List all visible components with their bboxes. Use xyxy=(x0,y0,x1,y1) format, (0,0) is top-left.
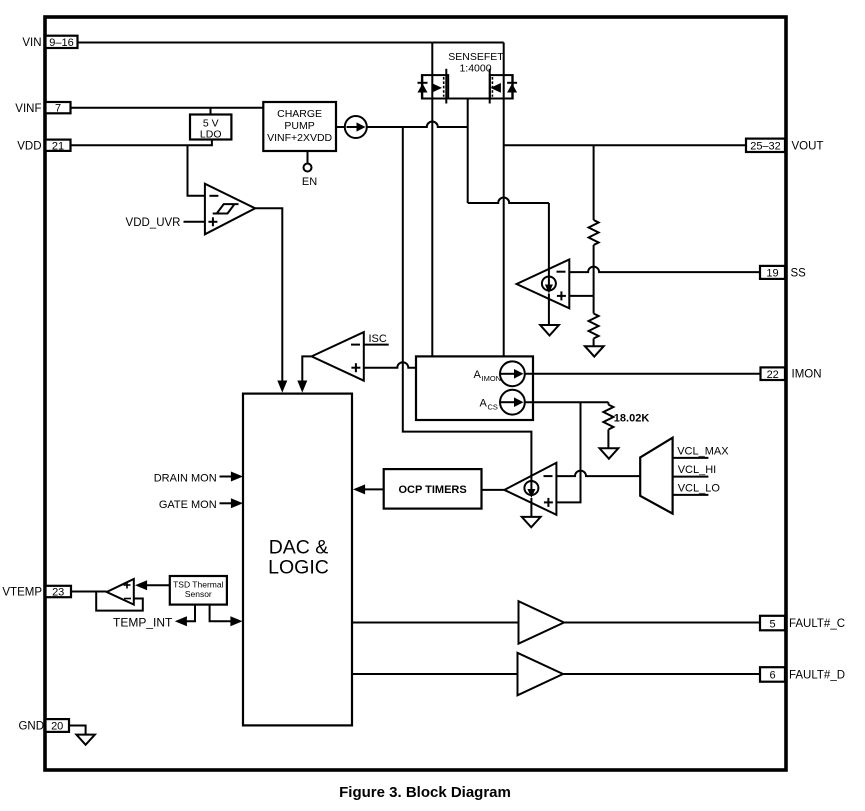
transistor main FET (left) xyxy=(418,69,449,104)
svg-text:A: A xyxy=(474,369,482,381)
svg-text:ISC: ISC xyxy=(369,333,387,345)
ground at GND pin xyxy=(76,735,95,745)
pin VOUT 25-32 xyxy=(504,139,824,153)
svg-text:21: 21 xyxy=(52,140,64,152)
svg-text:1:4000: 1:4000 xyxy=(459,63,491,75)
signal GATE MON xyxy=(159,498,243,511)
block OCP TIMERS xyxy=(384,469,505,509)
svg-text:20: 20 xyxy=(51,721,63,733)
op-amp U5 (VTEMP buffer) xyxy=(71,579,143,611)
svg-text:VINF: VINF xyxy=(15,103,41,115)
resistor R2 (divider bottom) xyxy=(589,296,599,346)
wire OCP comp to ground xyxy=(530,498,532,517)
wire A_CS output xyxy=(525,401,609,403)
svg-text:SENSEFET: SENSEFET xyxy=(448,51,504,63)
buffer U7 FAULT#_D xyxy=(352,653,563,696)
svg-text:OCP TIMERS: OCP TIMERS xyxy=(398,484,466,496)
current source I1 charge pump output xyxy=(336,116,367,138)
wire sense FET source down to A_CS input xyxy=(503,75,505,356)
wire charge pump rail down to OCP current source xyxy=(403,127,532,481)
svg-text:SS: SS xyxy=(791,268,807,280)
wire gate node vertical xyxy=(467,98,469,203)
svg-text:DRAIN MON: DRAIN MON xyxy=(154,472,217,484)
svg-text:9–16: 9–16 xyxy=(49,37,73,49)
svg-text:7: 7 xyxy=(55,103,61,115)
wire A_CS to OCP comparator plus input xyxy=(556,402,580,502)
ground below R2 xyxy=(585,346,604,356)
svg-text:A: A xyxy=(480,398,488,410)
wire SS comp plus input xyxy=(569,295,593,297)
block current sense amplifiers A_IMON / A_CS xyxy=(416,356,533,420)
ground below OCP comp xyxy=(522,517,541,527)
svg-text:GATE MON: GATE MON xyxy=(159,499,217,511)
block DAC & LOGIC xyxy=(243,394,352,726)
svg-text:22: 22 xyxy=(767,369,779,381)
pin FAULT#_D 6 xyxy=(563,667,845,682)
svg-text:TEMP_INT: TEMP_INT xyxy=(113,616,173,630)
svg-text:VIN: VIN xyxy=(22,37,41,49)
chip boundary border xyxy=(45,17,786,770)
wire ISC output to DAC xyxy=(302,356,311,381)
svg-text:VDD_UVR: VDD_UVR xyxy=(126,217,181,229)
resistor R1 (VOUT divider top) xyxy=(589,145,599,296)
wire GND to ground xyxy=(69,726,86,735)
svg-text:IMON: IMON xyxy=(792,369,822,381)
comparator U2 (SS) with internal current source xyxy=(517,203,570,308)
svg-text:5: 5 xyxy=(769,618,775,630)
pin VINF 7 xyxy=(15,102,70,115)
svg-text:VTEMP: VTEMP xyxy=(2,587,42,599)
pin VTEMP 23 xyxy=(2,586,71,599)
svg-text:GND: GND xyxy=(18,721,44,733)
wire ISC plus input to A_CS (hop over rail) xyxy=(364,362,416,367)
pin EN (enable) xyxy=(302,151,317,188)
pin SS 19 xyxy=(569,266,806,280)
comparator U4 (OCP) with internal current source xyxy=(504,463,556,515)
ground below R3 xyxy=(600,448,619,458)
svg-text:VOUT: VOUT xyxy=(792,141,824,153)
wire TSD to buffer plus input xyxy=(146,584,170,586)
svg-text:VCL_LO: VCL_LO xyxy=(678,482,721,494)
svg-text:IMON: IMON xyxy=(482,374,502,383)
signal TEMP_INT xyxy=(113,605,195,630)
svg-text:VINF+2XVDD: VINF+2XVDD xyxy=(267,132,332,144)
resistor R3 18.02K xyxy=(603,402,649,448)
block SENSEFET 1:4000 xyxy=(422,43,513,99)
wire gate node to SS current source (hop over sense line) xyxy=(468,198,549,204)
mux VCL select xyxy=(640,438,729,514)
pin VDD 21 xyxy=(17,140,70,153)
block TSD Thermal Sensor xyxy=(170,576,227,605)
pin VIN 9-16 xyxy=(22,36,77,50)
pin FAULT#_C 5 xyxy=(564,616,845,631)
ground below SS comp xyxy=(540,325,559,336)
wire VINF to charge pump xyxy=(71,107,264,109)
svg-text:EN: EN xyxy=(302,176,317,188)
svg-text:CS: CS xyxy=(488,402,498,411)
block charge pump VINF+2XVDD xyxy=(263,102,336,151)
pin GND 20 xyxy=(18,719,69,733)
comparator VDD_UVR U1 xyxy=(126,145,256,234)
svg-text:VCL_MAX: VCL_MAX xyxy=(677,445,729,457)
svg-text:LDO: LDO xyxy=(200,128,222,140)
svg-text:PUMP: PUMP xyxy=(284,120,314,132)
svg-text:FAULT#_C: FAULT#_C xyxy=(789,618,845,630)
comparator U3 (ISC) xyxy=(312,332,389,381)
wire VDD to LDO bottom xyxy=(71,140,212,146)
svg-text:LOGIC: LOGIC xyxy=(268,557,329,579)
wire VIN to SENSEFET top xyxy=(78,42,433,44)
transistor sense FET (right) xyxy=(490,69,517,104)
pin IMON 22 xyxy=(525,367,822,380)
svg-text:23: 23 xyxy=(52,587,64,599)
svg-text:18.02K: 18.02K xyxy=(614,413,650,425)
wire main FET source down to A_IMON input xyxy=(431,75,433,356)
svg-text:CHARGE: CHARGE xyxy=(277,108,322,120)
svg-text:Sensor: Sensor xyxy=(185,589,212,599)
svg-text:Figure 3. Block Diagram: Figure 3. Block Diagram xyxy=(339,784,511,801)
wire OCP minus input to VCL mux (hop) xyxy=(556,471,640,477)
svg-text:FAULT#_D: FAULT#_D xyxy=(789,669,845,681)
svg-text:TSD Thermal: TSD Thermal xyxy=(173,580,223,590)
svg-text:VCL_HI: VCL_HI xyxy=(678,464,717,476)
svg-text:VDD: VDD xyxy=(17,140,41,152)
wire charge pump output to gate node (hop over drain line) xyxy=(367,122,468,127)
svg-text:25–32: 25–32 xyxy=(750,141,781,153)
buffer U6 FAULT#_C xyxy=(352,601,564,644)
signal DRAIN MON xyxy=(154,472,243,485)
wire SS comp to ground xyxy=(548,294,550,326)
regulator 5V LDO xyxy=(190,115,231,141)
svg-text:6: 6 xyxy=(769,670,775,682)
wire OCP TIMERS to DAC xyxy=(364,488,384,490)
wire TSD to DAC xyxy=(210,605,243,627)
wire UVR output to DAC xyxy=(255,208,282,381)
svg-text:19: 19 xyxy=(766,268,778,280)
wire VINF to 5V LDO top xyxy=(210,108,212,115)
svg-text:DAC &: DAC & xyxy=(269,537,329,559)
